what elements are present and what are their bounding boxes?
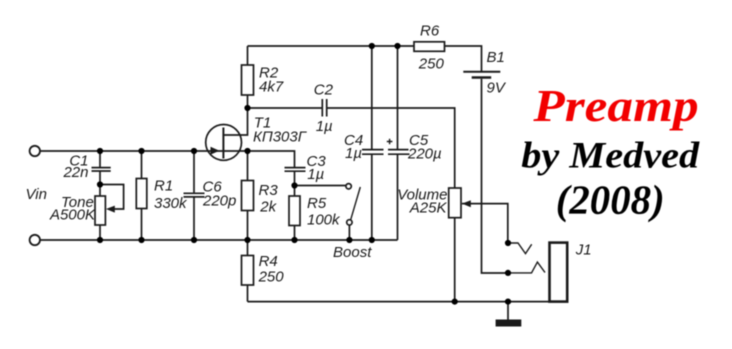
svg-text:R6: R6 bbox=[420, 23, 440, 40]
svg-text:A500K: A500K bbox=[49, 207, 96, 224]
svg-text:1µ: 1µ bbox=[345, 145, 362, 162]
svg-text:1µ: 1µ bbox=[307, 166, 324, 183]
svg-text:2k: 2k bbox=[259, 199, 277, 216]
svg-text:by Medved: by Medved bbox=[521, 136, 700, 176]
svg-text:4k7: 4k7 bbox=[259, 78, 284, 95]
svg-text:250: 250 bbox=[258, 268, 285, 285]
svg-text:220p: 220p bbox=[202, 193, 236, 210]
svg-text:R5: R5 bbox=[307, 195, 327, 212]
svg-text:1µ: 1µ bbox=[316, 118, 333, 135]
svg-text:(2008): (2008) bbox=[556, 176, 665, 223]
svg-text:Boost: Boost bbox=[333, 244, 372, 261]
svg-text:100k: 100k bbox=[307, 212, 341, 229]
svg-text:КП303Г: КП303Г bbox=[253, 128, 308, 145]
svg-text:J1: J1 bbox=[575, 242, 592, 259]
svg-text:250: 250 bbox=[418, 55, 445, 72]
svg-text:Preamp: Preamp bbox=[532, 81, 698, 131]
svg-text:C2: C2 bbox=[314, 81, 334, 98]
svg-text:220µ: 220µ bbox=[407, 146, 442, 163]
svg-text:22n: 22n bbox=[62, 164, 88, 181]
svg-text:330k: 330k bbox=[154, 195, 188, 212]
svg-text:9V: 9V bbox=[487, 79, 507, 96]
svg-text:R1: R1 bbox=[154, 178, 173, 195]
svg-text:R3: R3 bbox=[259, 182, 279, 199]
svg-text:Vin: Vin bbox=[26, 186, 47, 203]
svg-text:B1: B1 bbox=[487, 49, 505, 66]
svg-text:A25K: A25K bbox=[409, 200, 448, 217]
